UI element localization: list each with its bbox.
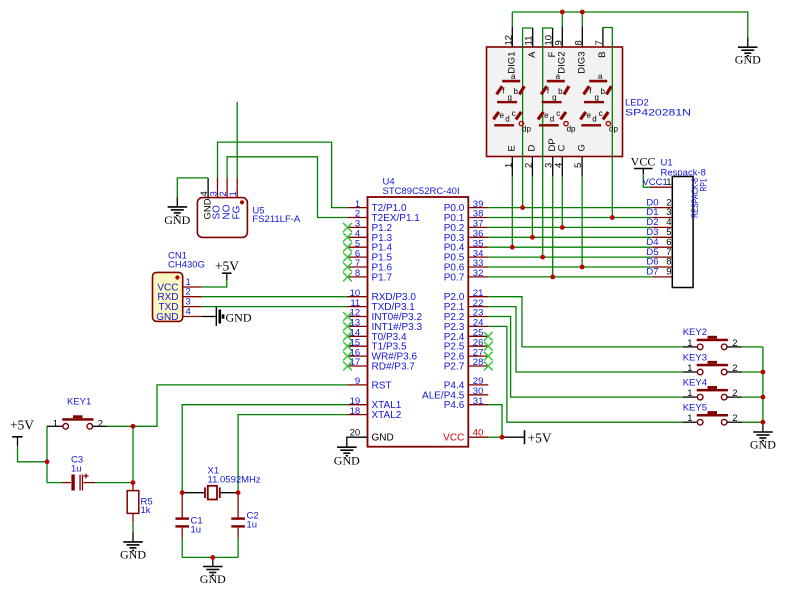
U4 pin 11 TXD/P3.1: [348, 298, 416, 313]
wire keys common rail: [762, 347, 764, 422]
U4 pin 37 P0.2: [444, 219, 489, 234]
svg-text:c: c: [512, 109, 516, 118]
U4 pin 2 T2EX/P1.1: [348, 209, 421, 224]
U4 pin 21 P2.0: [444, 288, 489, 303]
node segment C / P0.2: [560, 225, 565, 230]
resistor R5: [127, 483, 152, 542]
U4 pin 40 VCC: [443, 427, 504, 443]
U4 pin 4 P1.3: [343, 229, 392, 244]
node segment G / P0.6: [580, 265, 585, 270]
U4 pin 6 P1.5: [343, 248, 392, 263]
U4 pin 39 P0.0: [444, 199, 489, 214]
svg-text:d: d: [505, 115, 509, 124]
LED2 pin 12 DIG1: [503, 12, 517, 74]
capacitor C1: [175, 493, 202, 558]
svg-text:9: 9: [553, 40, 564, 45]
LED2 pin 5 G: [573, 144, 587, 267]
U1 pin 4 D2 / wire P0.2: [488, 217, 672, 228]
svg-text:g: g: [508, 93, 512, 102]
U4 pin 10 RXD/P3.0: [348, 288, 417, 303]
CN1 pin1 marker dot: [175, 275, 179, 279]
svg-text:28: 28: [473, 357, 484, 368]
U5 pin 1 FG / antenna stub wire: [228, 102, 242, 220]
svg-text:XTAL2: XTAL2: [372, 410, 402, 421]
node C3 / R5: [131, 480, 136, 485]
LED2 pin 2 D: [523, 145, 537, 238]
U4 pin 26 P2.5: [444, 337, 493, 352]
ground GND under keys: [750, 422, 776, 451]
U4 pin 35 P0.4: [444, 238, 489, 253]
U4 pin 25 P2.4: [444, 328, 493, 343]
U1 pin 7 D5 / wire P0.5: [488, 247, 672, 258]
svg-text:dp: dp: [609, 125, 618, 134]
wire U5 pin4 to GND: [177, 178, 208, 197]
svg-text:P2.7: P2.7: [444, 362, 465, 373]
U4 pin 3 P1.2: [343, 219, 392, 234]
wire U4 XTAL2 to crystal right: [238, 415, 347, 493]
svg-text:11: 11: [524, 36, 535, 46]
svg-text:D7: D7: [646, 267, 658, 278]
node XTAL1 / C1: [180, 490, 185, 495]
svg-text:dp: dp: [567, 125, 576, 134]
node crystal GND: [210, 555, 215, 560]
svg-text:31: 31: [473, 396, 484, 407]
U4 pin 32 P0.7: [444, 268, 489, 283]
svg-text:11.0592MHz: 11.0592MHz: [208, 475, 261, 486]
node segment B / P0.1: [610, 215, 615, 220]
svg-text:G: G: [576, 144, 587, 151]
LED2 pin 1 E: [503, 145, 517, 247]
svg-text:1u: 1u: [191, 525, 202, 536]
svg-text:A: A: [527, 51, 538, 58]
svg-text:SP420281N: SP420281N: [625, 108, 691, 119]
capacitor C3: [47, 455, 133, 491]
svg-text:VCC1: VCC1: [642, 177, 667, 188]
svg-text:GND: GND: [200, 572, 226, 586]
U1 pin 2 D0 / wire P0.0: [488, 197, 672, 208]
svg-text:VCC: VCC: [631, 155, 656, 169]
U4 pin 13 INT1#/P3.3: [343, 318, 422, 333]
svg-text:g: g: [552, 93, 556, 102]
svg-text:40: 40: [473, 427, 484, 438]
wire U4 P2.3 to KEY5: [488, 326, 682, 422]
svg-text:9: 9: [666, 267, 671, 278]
resistor pack U1 body: [672, 177, 693, 288]
U5 pin 2 NO / wire to U4 pin 2: [218, 157, 347, 220]
node segment A / P0.0: [520, 205, 525, 210]
svg-text:e: e: [587, 111, 592, 120]
svg-text:FG: FG: [231, 205, 242, 219]
U4 pin 22 P2.1: [444, 298, 489, 313]
power VCC at U1: [631, 155, 656, 188]
svg-text:E: E: [507, 145, 518, 151]
connector CN1 body: [153, 272, 183, 321]
svg-text:GND: GND: [226, 311, 252, 325]
svg-text:KEY5: KEY5: [683, 403, 707, 414]
ground GND top right: [747, 37, 749, 47]
wire crystal bottom rail: [182, 556, 238, 558]
svg-text:DIG2: DIG2: [557, 52, 568, 74]
svg-text:1u: 1u: [71, 464, 82, 475]
svg-text:CH430G: CH430G: [168, 260, 205, 271]
svg-text:a: a: [556, 72, 561, 81]
U4 pin 23 P2.2: [444, 308, 489, 323]
svg-text:KEY1: KEY1: [67, 397, 91, 408]
ground GND left of U5: [164, 207, 190, 227]
capacitor C2: [231, 493, 258, 558]
U4 pin 8 P1.7: [343, 268, 392, 283]
svg-text:+5V: +5V: [528, 431, 552, 446]
U1 pin 8 D6 / wire P0.6: [488, 257, 672, 268]
switch KEY2: [683, 327, 763, 350]
LED2 pin 8 DIG3: [573, 12, 587, 74]
touch sensor U5 body: [197, 198, 247, 238]
svg-text:+5V: +5V: [10, 417, 34, 432]
wire KEY1 node down to R5/C3 node: [132, 426, 134, 482]
node segment D / P0.3: [530, 235, 535, 240]
wire U4 P2.0 to KEY2: [488, 297, 682, 347]
U4 pin 33 P0.6: [444, 258, 489, 273]
U4 pin 17 RD#/P3.7: [343, 357, 415, 372]
svg-text:18: 18: [350, 406, 361, 417]
LED2 pin 11 A: [523, 28, 538, 208]
svg-text:GND: GND: [750, 437, 776, 451]
U4 pin 16 WR#/P3.6: [343, 347, 417, 362]
wire U4 RST to KEY1 node: [133, 385, 348, 426]
LED2 digit 2 segments: [538, 72, 576, 134]
U4 pin 28 P2.7: [444, 357, 493, 372]
switch KEY3: [683, 352, 763, 375]
svg-text:KEY2: KEY2: [683, 327, 707, 338]
node KEY3 rail: [761, 370, 766, 375]
svg-text:RD#/P3.7: RD#/P3.7: [372, 362, 416, 373]
wire +5V node to KEY1 pin1 and C3: [46, 426, 48, 482]
svg-text:GND: GND: [334, 453, 360, 467]
svg-text:b: b: [558, 87, 563, 96]
svg-text:8: 8: [573, 40, 584, 45]
svg-text:GND: GND: [735, 52, 761, 66]
svg-text:d: d: [592, 115, 596, 124]
LED2 pin 10 F: [543, 28, 558, 257]
crystal X1: [182, 466, 261, 500]
svg-text:C: C: [557, 145, 568, 152]
svg-text:1: 1: [687, 363, 692, 374]
U5 pin 3 SO / wire to U4 pin 1: [209, 142, 348, 219]
svg-text:STC89C52RC-40I: STC89C52RC-40I: [383, 186, 460, 197]
svg-text:b: b: [601, 87, 606, 96]
node DIG3 on top rail: [580, 10, 585, 15]
LED2 pin 3 DP: [544, 138, 558, 277]
node DIG2 on top rail: [560, 10, 565, 15]
U4 pin 24 P2.3: [444, 318, 489, 333]
svg-text:GND: GND: [164, 213, 190, 227]
U1 pin 9 D7 / wire P0.7: [488, 267, 672, 278]
U1 pin 1 VCC1: [642, 177, 672, 188]
svg-text:b: b: [514, 87, 519, 96]
svg-text:DIG3: DIG3: [577, 52, 588, 74]
wire U4 XTAL1 to crystal left: [182, 405, 347, 493]
U4 pin 5 P1.4: [343, 238, 392, 253]
CN1 pin 4 GND / bar ground: [156, 307, 215, 324]
svg-text:FS211LF-A: FS211LF-A: [252, 214, 301, 225]
svg-text:4: 4: [186, 307, 191, 318]
svg-text:1: 1: [687, 388, 692, 399]
U4 pin 18 XTAL2: [348, 406, 402, 421]
svg-text:GND: GND: [120, 547, 146, 561]
LED2 display body: [487, 47, 623, 157]
svg-text:P4.6: P4.6: [444, 400, 465, 411]
ground GND at U4 pin 20: [334, 447, 360, 467]
svg-text:c: c: [556, 109, 560, 118]
wire U4 P2.1 to KEY3: [488, 307, 682, 372]
node segment DP / P0.7: [550, 275, 555, 280]
U5 pin 4 GND: [199, 178, 213, 220]
CN1 pin 1 VCC / wire to +5V: [157, 277, 226, 294]
U4 pin 15 T1/P3.5: [343, 337, 407, 352]
LED2 pin 7 B: [594, 28, 612, 218]
node +5V / KEY1: [45, 459, 50, 464]
svg-text:4: 4: [553, 163, 564, 168]
svg-text:GND: GND: [372, 433, 394, 444]
svg-text:5: 5: [573, 163, 584, 168]
svg-text:1: 1: [687, 413, 692, 424]
node VCC / P4.6: [500, 435, 505, 440]
power +5V at U4 pin 40: [504, 430, 552, 445]
svg-text:KEY4: KEY4: [683, 377, 707, 388]
svg-text:B: B: [597, 52, 608, 58]
ground GND under R5: [120, 542, 146, 561]
svg-text:1k: 1k: [141, 505, 151, 516]
svg-text:c: c: [599, 109, 603, 118]
svg-text:e: e: [500, 111, 505, 120]
U4 pin 7 P1.6: [343, 258, 392, 273]
svg-text:GND: GND: [156, 312, 178, 323]
svg-text:9: 9: [355, 376, 360, 387]
node segment F / P0.5: [540, 255, 545, 260]
U4 pin 19 XTAL1: [348, 396, 402, 411]
node KEY1 / RST: [131, 424, 136, 429]
LED2 digit 1 segments: [493, 72, 531, 134]
svg-text:7: 7: [594, 40, 605, 45]
svg-text:+5V: +5V: [215, 259, 239, 274]
svg-text:a: a: [598, 72, 603, 81]
U4 pin 30 ALE/P4.5: [422, 386, 488, 401]
svg-text:RST: RST: [372, 380, 392, 391]
svg-text:1: 1: [666, 177, 671, 188]
svg-text:a: a: [511, 72, 516, 81]
CN1 pin 2 RXD / wire to U4 pin 10: [157, 287, 347, 304]
power +5V left: [10, 417, 47, 462]
U4 pin 29 P4.4: [444, 376, 489, 391]
LED2 pin 9 DIG2: [553, 12, 567, 74]
svg-text:1: 1: [228, 191, 239, 196]
U4 pin 9 RST: [348, 376, 392, 391]
svg-text:32: 32: [473, 268, 484, 279]
svg-text:2: 2: [98, 419, 103, 430]
svg-text:8: 8: [355, 268, 360, 279]
switch KEY1: [47, 397, 133, 430]
U4 pin 1 T2/P1.0: [348, 199, 407, 214]
U4 pin 36 P0.3: [444, 229, 489, 244]
svg-text:e: e: [544, 111, 549, 120]
svg-text:P0.7: P0.7: [444, 272, 465, 283]
ground GND under crystal: [200, 557, 226, 586]
U4 pin 31 P4.6 / wire to +5V: [444, 396, 502, 437]
CN1 pin 3 TXD / wire to U4 pin 11: [159, 297, 348, 314]
svg-text:KEY3: KEY3: [683, 352, 707, 363]
svg-text:RP1: RP1: [699, 179, 709, 192]
svg-text:12: 12: [503, 35, 514, 46]
op MCU U4 body: [368, 197, 469, 447]
U1 pin 3 D1 / wire P0.1: [488, 207, 672, 218]
wire U4 P2.2 to KEY4: [488, 317, 682, 398]
U4 pin 12 INT0#/P3.2: [343, 308, 422, 323]
wire DIG common top rail: [512, 12, 748, 37]
svg-text:dp: dp: [522, 125, 531, 134]
svg-text:1: 1: [503, 163, 514, 168]
svg-text:D: D: [527, 145, 538, 152]
svg-text:g: g: [595, 93, 599, 102]
switch KEY4: [683, 377, 763, 400]
svg-text:P1.7: P1.7: [372, 272, 393, 283]
svg-text:DIG1: DIG1: [507, 52, 518, 74]
U4 pin 14 T0/P3.4: [343, 328, 407, 343]
node KEY5 rail: [761, 420, 766, 425]
node segment E / P0.4: [510, 245, 515, 250]
U5 pin1 marker dot: [240, 200, 244, 204]
svg-text:1: 1: [687, 338, 692, 349]
LED2 digit 3 segments: [580, 72, 618, 134]
svg-text:1: 1: [53, 419, 58, 430]
svg-text:1u: 1u: [247, 520, 258, 531]
U1 pin 5 D3 / wire P0.3: [488, 227, 672, 238]
U1 pin 6 D4 / wire P0.4: [488, 237, 672, 248]
svg-text:2: 2: [523, 163, 534, 168]
U4 pin 38 P0.1: [444, 209, 489, 224]
node XTAL2 / C2: [236, 490, 241, 495]
U4 pin 34 P0.5: [444, 248, 489, 263]
LED2 pin 4 C: [553, 145, 567, 228]
switch KEY5: [683, 403, 763, 426]
U4 pin 27 P2.6: [444, 347, 493, 362]
svg-text:20: 20: [350, 427, 361, 438]
U4 pin 20 GND: [347, 427, 394, 447]
svg-text:d: d: [550, 115, 554, 124]
svg-text:VCC: VCC: [443, 433, 464, 444]
ground bar symbol at CN1 pin 4: [216, 307, 252, 326]
power +5V at CN1: [215, 259, 239, 281]
node KEY4 rail: [761, 395, 766, 400]
